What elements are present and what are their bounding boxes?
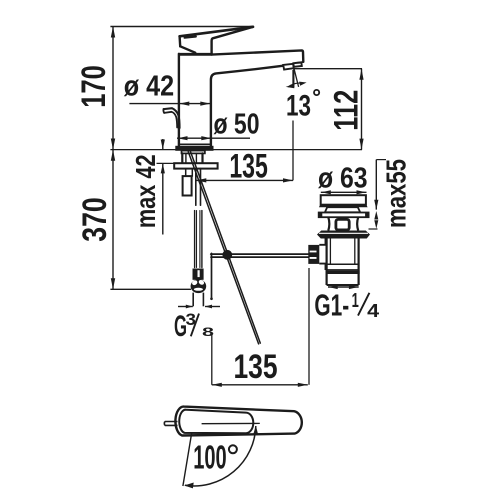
svg-text:G1-: G1- [314, 288, 349, 323]
svg-text:170: 170 [75, 65, 113, 108]
svg-text:135: 135 [229, 148, 268, 186]
svg-text:max55: max55 [380, 159, 411, 228]
svg-text:1: 1 [352, 290, 359, 312]
svg-text:370: 370 [76, 197, 114, 242]
svg-text:13: 13 [286, 89, 311, 122]
svg-text:8: 8 [202, 325, 215, 339]
svg-text:4: 4 [367, 300, 380, 321]
svg-text:135: 135 [233, 348, 277, 386]
svg-text:ø 42: ø 42 [124, 71, 174, 103]
svg-text:ø 50: ø 50 [214, 109, 260, 141]
svg-text:max 42: max 42 [130, 154, 161, 228]
svg-text:112: 112 [327, 90, 365, 131]
svg-text:ø 63: ø 63 [318, 162, 368, 194]
svg-text:100: 100 [193, 438, 227, 475]
